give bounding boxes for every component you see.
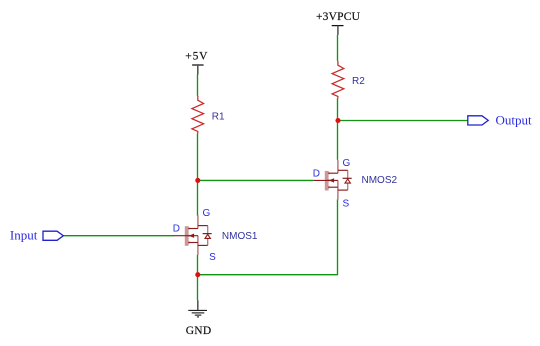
- svg-text:G: G: [203, 208, 211, 219]
- svg-text:Output: Output: [496, 112, 533, 127]
- svg-text:R1: R1: [212, 111, 225, 122]
- svg-text:Input: Input: [10, 227, 38, 242]
- svg-text:NMOS2: NMOS2: [362, 175, 398, 186]
- svg-text:S: S: [209, 252, 216, 263]
- svg-text:+3VPCU: +3VPCU: [316, 11, 361, 23]
- svg-text:+5V: +5V: [185, 51, 208, 63]
- svg-text:D: D: [173, 224, 180, 235]
- svg-text:D: D: [313, 168, 320, 179]
- svg-text:R2: R2: [352, 76, 365, 87]
- svg-text:G: G: [343, 158, 351, 169]
- svg-text:S: S: [343, 198, 350, 209]
- svg-text:NMOS1: NMOS1: [222, 231, 258, 242]
- svg-text:GND: GND: [186, 325, 212, 337]
